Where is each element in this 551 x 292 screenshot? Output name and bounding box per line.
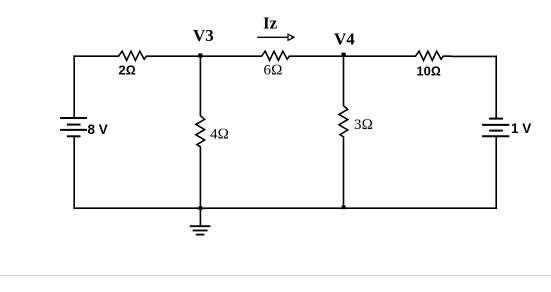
svg-text:2Ω: 2Ω bbox=[119, 63, 136, 78]
svg-text:8 V: 8 V bbox=[88, 122, 108, 137]
svg-text:V4: V4 bbox=[334, 29, 355, 48]
svg-text:3Ω: 3Ω bbox=[354, 117, 373, 133]
svg-text:V3: V3 bbox=[193, 26, 214, 45]
svg-text:1 V: 1 V bbox=[511, 121, 531, 136]
svg-text:6Ω: 6Ω bbox=[264, 63, 283, 79]
svg-text:Iz: Iz bbox=[263, 13, 278, 32]
svg-text:4Ω: 4Ω bbox=[210, 126, 229, 142]
svg-text:10Ω: 10Ω bbox=[416, 63, 440, 78]
